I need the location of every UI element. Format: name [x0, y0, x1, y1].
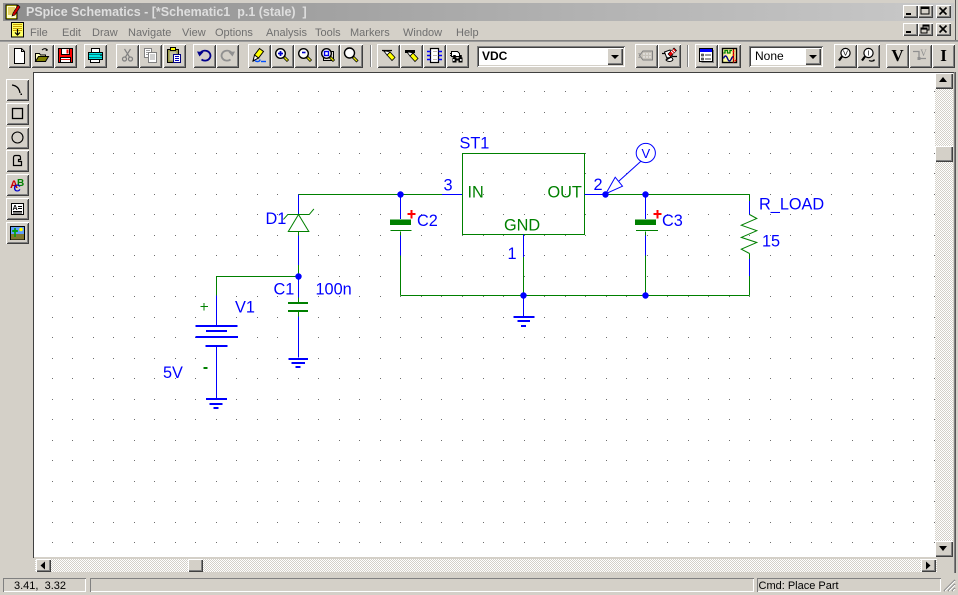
voltage probe: [834, 44, 857, 68]
svg-text:100n: 100n: [316, 281, 352, 299]
draw block: [423, 44, 446, 68]
wire V1 to C1 node: [217, 277, 299, 296]
IC OUT pin 2 lead: [585, 194, 606, 196]
wire C3 to bus: [645, 256, 647, 296]
wire top D1 to IN: [299, 194, 443, 196]
node junction C2 top: [397, 191, 403, 197]
horizontal scrollbar: [35, 559, 937, 572]
capacitor C2: [400, 195, 402, 220]
wire OUT node to R_LOAD: [606, 194, 750, 196]
circle tool: [6, 127, 29, 149]
resistor R_LOAD: [749, 195, 751, 202]
edit symbol: [658, 44, 681, 68]
draw bus: [400, 44, 423, 68]
menu bar: [3, 21, 954, 40]
arc tool: [6, 79, 29, 101]
toolbar background: [0, 42, 958, 72]
undo: [193, 44, 216, 68]
zoom in: [271, 44, 294, 68]
stamp (disabled): [635, 44, 658, 68]
open: [31, 44, 54, 68]
ground below V1: [206, 399, 227, 408]
current probe: [857, 44, 880, 68]
redo (disabled): [216, 44, 239, 68]
zoom fit: [340, 44, 363, 68]
zoom area: [317, 44, 340, 68]
abc text tool: [6, 174, 29, 196]
capacitor C1: [298, 277, 300, 298]
svg-text:V: V: [843, 49, 848, 58]
simulate: [718, 44, 741, 68]
save: [54, 44, 77, 68]
polyline tool: [6, 150, 29, 172]
voltage source V1: [196, 296, 239, 399]
svg-text:15: 15: [762, 233, 780, 251]
svg-text:I: I: [940, 47, 947, 65]
C2 plus sign (red): [408, 210, 416, 219]
wire GND pin to bus: [523, 257, 525, 296]
node junction GND bus: [520, 292, 526, 298]
status bar: [0, 573, 958, 595]
print: [84, 44, 107, 68]
svg-text:C3: C3: [662, 212, 683, 230]
svg-text:I: I: [867, 49, 869, 58]
node junction C1: [295, 273, 301, 279]
capacitor C3: [645, 195, 647, 220]
mdi child buttons: [903, 23, 918, 36]
svg-text:C: C: [14, 184, 21, 194]
IC ST1 pin 3 lead: [442, 194, 463, 196]
wire C2 to bottom bus: [400, 256, 402, 296]
vertical scrollbar: [935, 73, 953, 557]
svg-text:C1: C1: [274, 281, 295, 299]
wire D1 to node: [298, 265, 300, 277]
svg-text:1: 1: [508, 245, 517, 263]
svg-text:V: V: [920, 48, 927, 58]
textbox tool: [6, 198, 29, 220]
cut (disabled): [116, 44, 139, 68]
C3 plus sign (red): [654, 210, 662, 219]
caption buttons: [903, 5, 918, 18]
C2 bottom pin: [400, 236, 402, 256]
svg-text:V: V: [891, 47, 904, 65]
svg-text:ST1: ST1: [460, 135, 490, 153]
V1 plus sign: [201, 303, 209, 311]
V1 minus sign: [204, 367, 208, 369]
C1 lower pin: [298, 317, 300, 358]
svg-text:IN: IN: [468, 184, 484, 202]
divider: [370, 45, 371, 67]
svg-text:5V: 5V: [163, 364, 183, 382]
svg-text:R_LOAD: R_LOAD: [759, 196, 824, 214]
zoom out: [294, 44, 317, 68]
C3 bottom pin: [645, 236, 647, 256]
left palette column: [0, 72, 34, 572]
zener diode D1: [298, 195, 300, 216]
svg-text:V1: V1: [235, 299, 255, 317]
redraw pencil: [248, 44, 271, 68]
svg-text:A: A: [13, 205, 18, 212]
bottom bus wire: [401, 295, 750, 297]
IC U1 (regulator) body ST1: [463, 154, 585, 235]
viewpoint marker V: [606, 143, 656, 193]
setup analysis: [695, 44, 718, 68]
IC GND pin 1 lead: [523, 235, 525, 258]
none combo: [749, 46, 823, 67]
ground below C1: [289, 359, 309, 367]
I marker: [932, 44, 955, 68]
svg-text:2: 2: [594, 176, 603, 194]
VDC combo: [477, 46, 625, 67]
divider: [687, 45, 688, 67]
V marker: [886, 44, 909, 68]
ground at bus: [514, 296, 535, 327]
node junction at OUT: [602, 191, 608, 197]
picture tool: [6, 222, 29, 244]
V wave marker (disabled): [909, 44, 932, 68]
svg-text:C2: C2: [417, 212, 438, 230]
canvas: [33, 72, 955, 73]
title bar: [3, 3, 954, 21]
new: [8, 44, 31, 68]
get new part: [446, 44, 469, 68]
copy (disabled): [139, 44, 162, 68]
D1 bottom pin: [298, 236, 300, 266]
svg-text:D1: D1: [266, 210, 287, 228]
svg-text:3: 3: [444, 177, 453, 195]
node junction C3 top: [642, 191, 648, 197]
paste: [163, 44, 186, 68]
svg-text:GND: GND: [504, 217, 540, 235]
svg-text:V: V: [641, 146, 650, 161]
separator under menu: [0, 40, 958, 41]
draw wire: [377, 44, 400, 68]
svg-text:OUT: OUT: [548, 184, 582, 202]
rect tool: [6, 103, 29, 125]
node junction C3 bottom: [642, 292, 648, 298]
